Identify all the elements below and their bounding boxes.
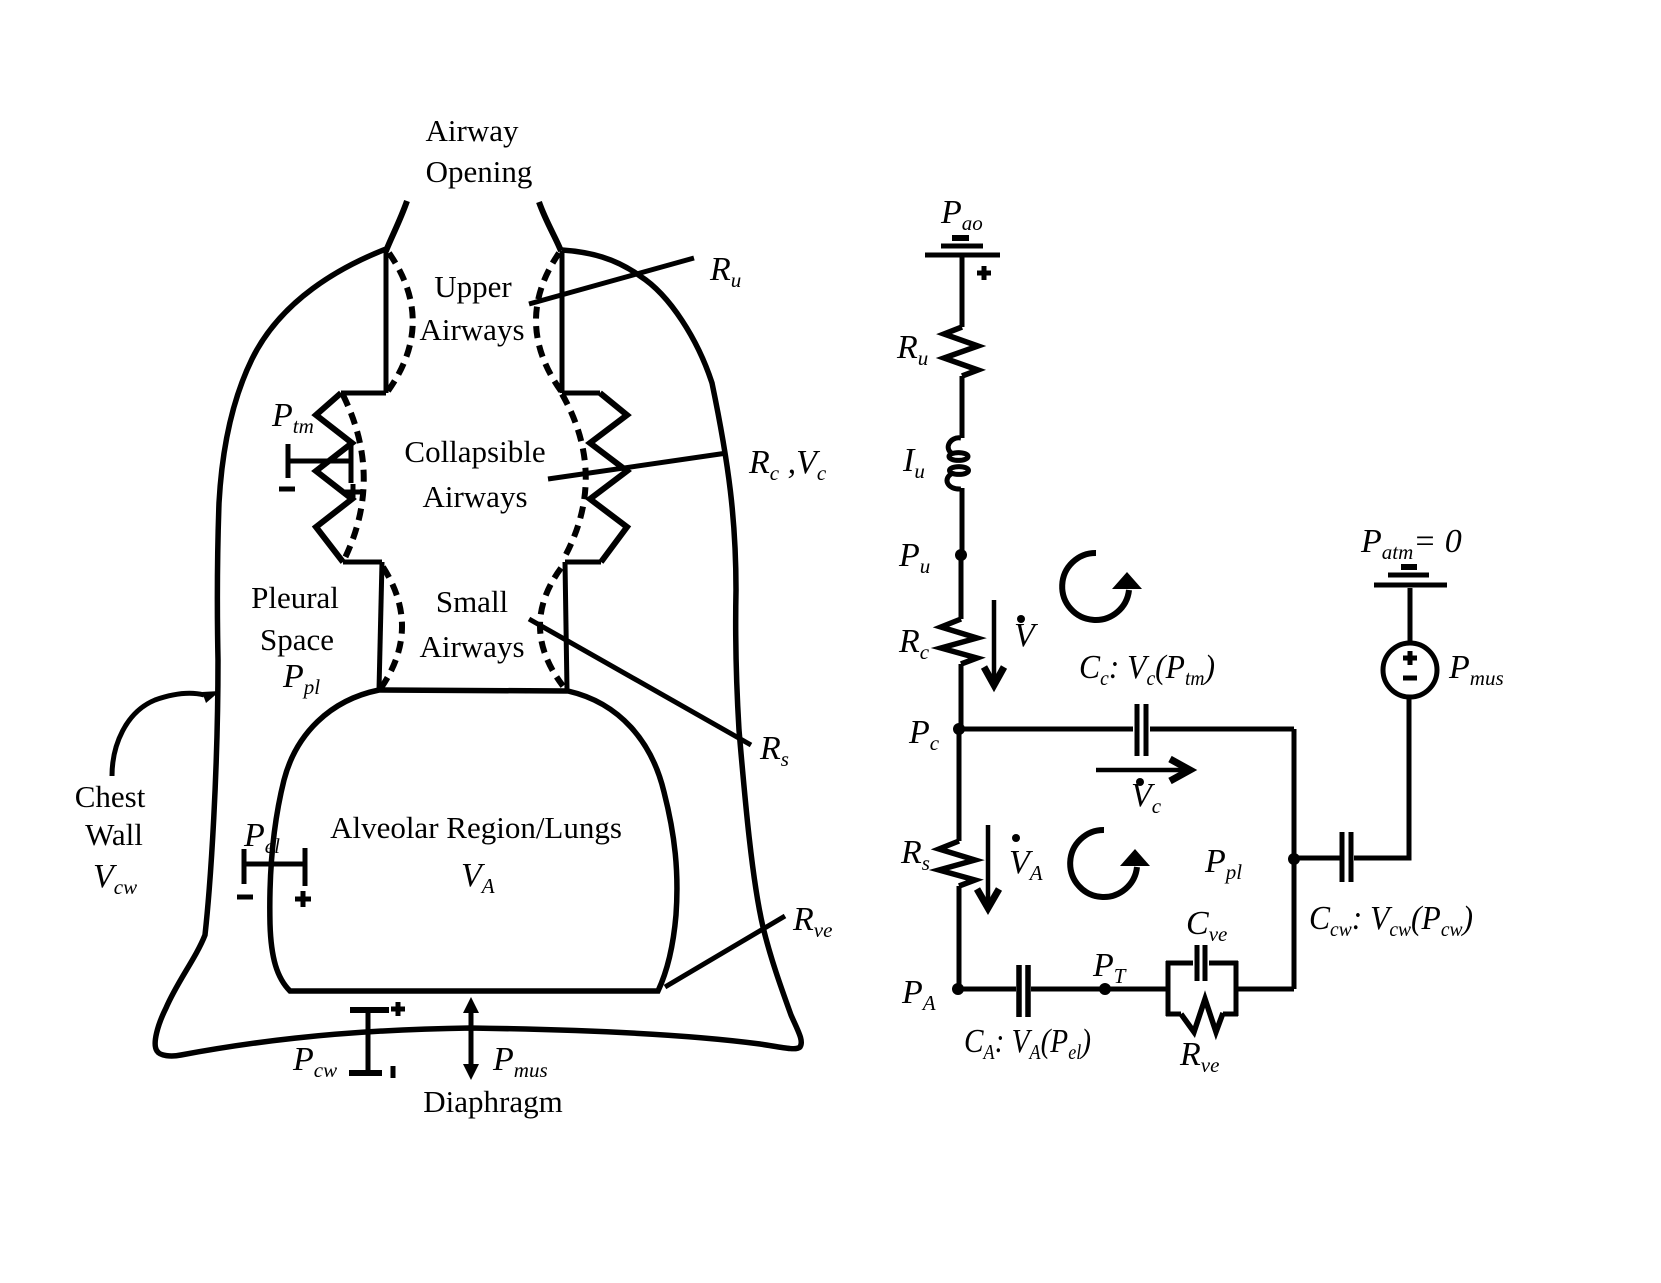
svg-text:Opening: Opening [426, 154, 533, 189]
svg-text:Airways: Airways [419, 312, 524, 347]
svg-text:Alveolar Region/Lungs: Alveolar Region/Lungs [330, 810, 622, 845]
svg-text:Pleural: Pleural [251, 580, 339, 615]
svg-text:Airways: Airways [422, 479, 527, 514]
svg-text:Airways: Airways [419, 629, 524, 664]
svg-text:Rc ,Vc: Rc ,Vc [748, 444, 827, 485]
svg-text:Collapsible: Collapsible [404, 434, 545, 469]
svg-text:Space: Space [260, 622, 334, 657]
svg-text:Small: Small [436, 584, 508, 619]
svg-text:Diaphragm: Diaphragm [423, 1084, 562, 1119]
svg-text:Wall: Wall [85, 817, 143, 852]
svg-text:Upper: Upper [434, 269, 512, 304]
svg-text:Airway: Airway [426, 113, 519, 148]
svg-text:Chest: Chest [75, 779, 146, 814]
